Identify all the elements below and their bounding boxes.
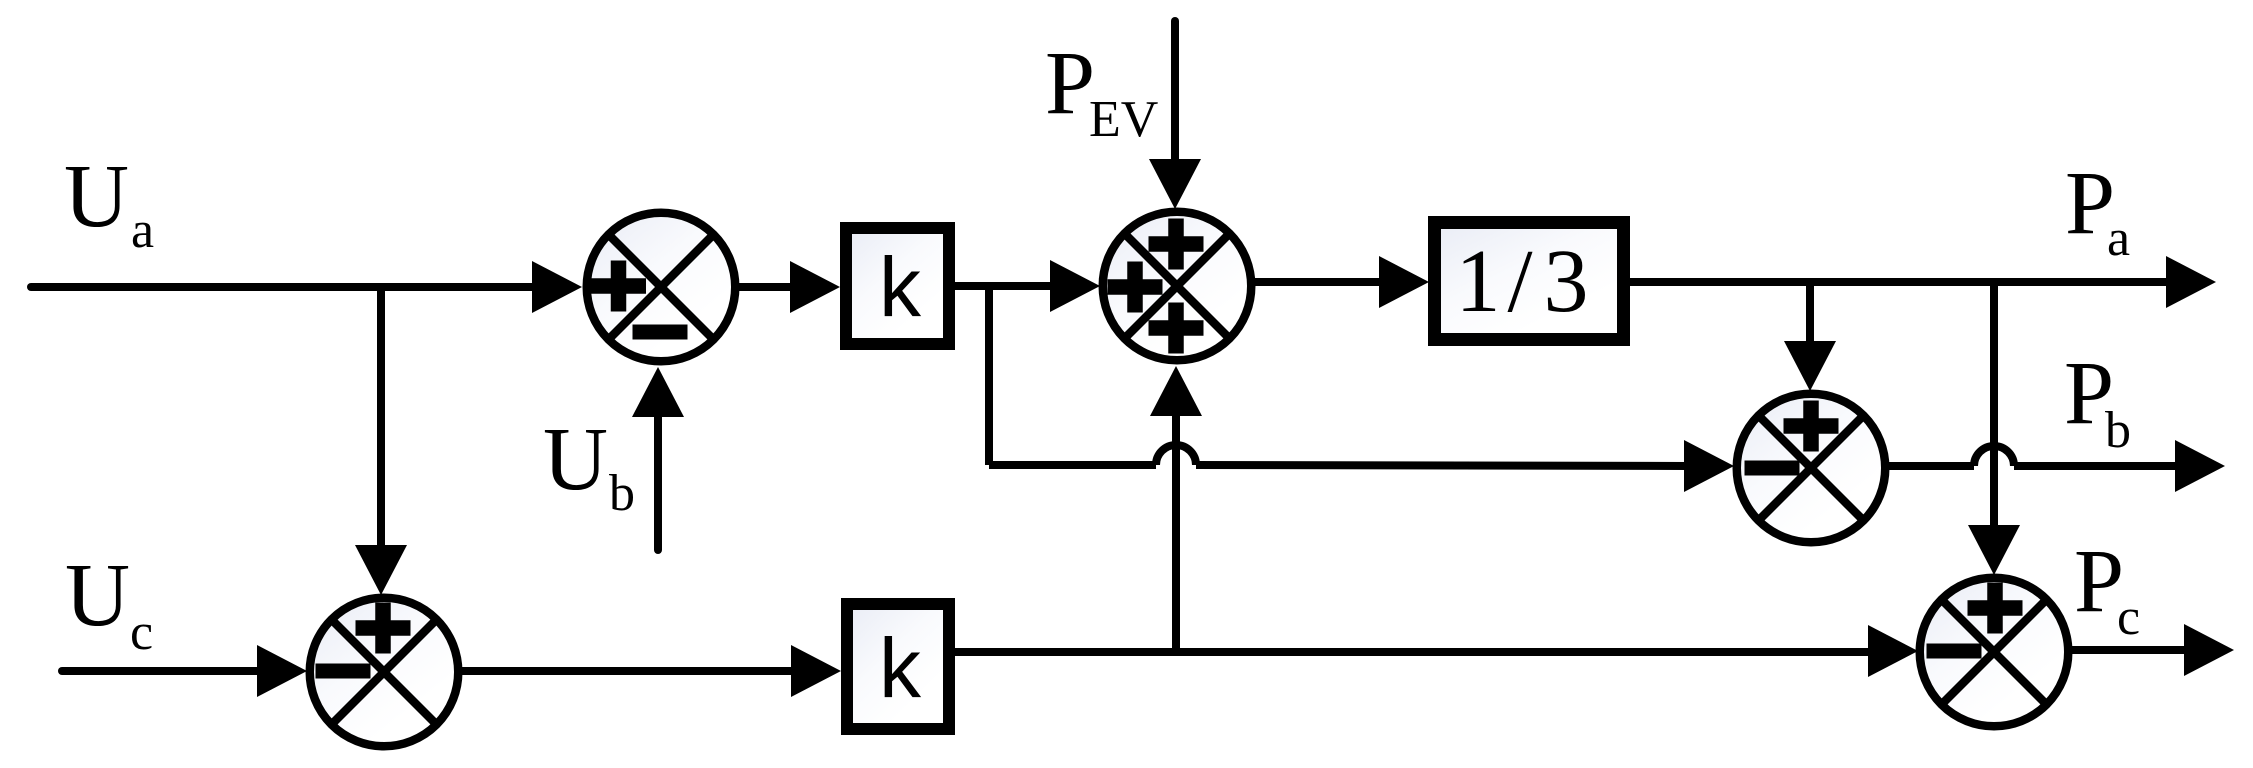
wire Pa branch arrow into S4 top <box>1968 525 2020 575</box>
wire S3 to Pb output (hops over S4 riser) <box>1889 440 2225 492</box>
node B (k1 output tee) <box>985 286 993 465</box>
label PEV <box>1045 34 1158 148</box>
summing junction S1 (Ua - Ub) <box>587 213 736 362</box>
gain block k2 <box>847 604 949 729</box>
S2 plus (left input) <box>1108 262 1163 313</box>
wire S5 to k2 <box>462 645 841 697</box>
wire k1 branch to S3 (hops over riser) <box>989 440 1734 492</box>
wire Pa output rail <box>1630 256 2216 308</box>
svg-text:P: P <box>1045 34 1095 133</box>
wire Ua branch down to S5 <box>355 287 407 595</box>
svg-text:U: U <box>543 410 608 509</box>
label Ua <box>64 147 154 259</box>
summing junction S5 (Ua - Uc) <box>310 598 459 747</box>
block 1/3 <box>1435 223 1624 340</box>
svg-text:1: 1 <box>1456 232 1501 331</box>
summing junction S3 (Pa - k(Ua-Ub)) <box>1737 394 1886 543</box>
S4 minus (left input) <box>1927 644 1982 659</box>
svg-text:U: U <box>65 546 130 645</box>
wire S4 to Pc output <box>2072 624 2234 676</box>
svg-text:a: a <box>2107 210 2130 267</box>
S3 minus (left input) <box>1745 461 1800 476</box>
S1 minus (bottom input) <box>633 325 688 340</box>
wire Uc input <box>62 645 307 697</box>
svg-text:a: a <box>131 202 154 259</box>
svg-text:U: U <box>64 147 129 246</box>
summing junction S2 (PEV + k(Ua-Ub) + k(Ua-Uc)) <box>1103 212 1252 361</box>
label Uc <box>65 546 153 661</box>
S2 plus (bottom input) <box>1149 303 1204 354</box>
wire Ua input <box>31 261 582 313</box>
label Pc <box>2074 532 2140 646</box>
svg-text:3: 3 <box>1544 232 1589 331</box>
svg-text:k: k <box>879 240 922 334</box>
S5 minus (left input) <box>316 664 371 679</box>
wire k1 to S2 <box>955 260 1100 312</box>
S5 plus (top input) <box>356 603 411 654</box>
node D (Pa branch to S4) <box>1990 282 1998 529</box>
svg-text:b: b <box>609 465 635 522</box>
svg-text:EV: EV <box>1089 91 1158 148</box>
wire S2 to block 1/3 <box>1255 256 1429 308</box>
node C (Pa branch to S3) <box>1806 282 1814 345</box>
svg-text:b: b <box>2105 402 2131 459</box>
wire S1 to k1 <box>739 261 840 313</box>
svg-text:k: k <box>879 621 922 715</box>
S3 plus (top input) <box>1784 401 1839 452</box>
svg-text:/: / <box>1507 232 1532 331</box>
label Pb <box>2064 344 2131 459</box>
node A (Ua branch tee) <box>377 287 385 291</box>
gain block k1 <box>846 228 949 344</box>
svg-text:c: c <box>2117 589 2140 646</box>
wire Ub input <box>632 367 684 550</box>
wire Pa branch arrow into S3 top <box>1784 341 1836 391</box>
wire PEV input <box>1149 21 1201 209</box>
wire riser from bottom rail to S2 <box>1150 366 1202 652</box>
label Pa <box>2065 154 2130 267</box>
S2 plus (top input) <box>1149 219 1204 270</box>
S1 plus (left input) <box>591 261 646 312</box>
svg-text:c: c <box>130 604 153 661</box>
label Ub <box>543 410 635 522</box>
S4 plus (top input) <box>1968 583 2023 634</box>
wire k2 output bottom rail to S4 <box>955 625 1918 677</box>
summing junction S4 (Pa - k(Ua-Uc)) <box>1920 578 2069 727</box>
